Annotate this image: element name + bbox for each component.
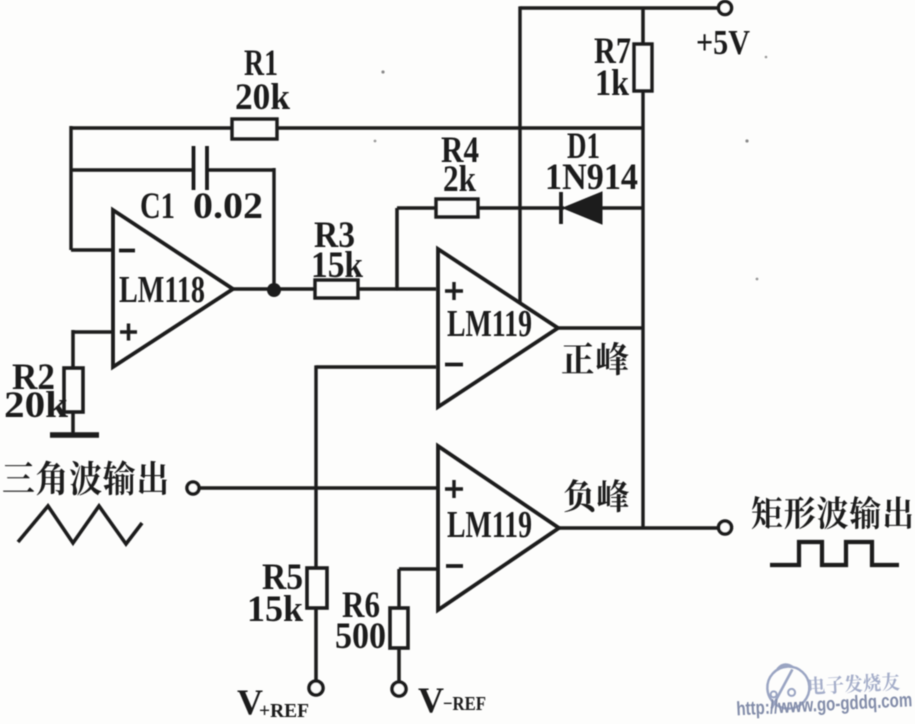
wire U1 output [233, 287, 315, 291]
wire R5 vertical [314, 365, 317, 568]
label R4 [441, 130, 479, 171]
svg-text:LM119: LM119 [447, 303, 532, 345]
op-amp U1 LM118 [113, 210, 233, 367]
wire triangle output row [199, 486, 438, 490]
resistor R1 [232, 119, 277, 139]
svg-text:1N914: 1N914 [545, 157, 638, 198]
label R6 [342, 585, 380, 626]
square wave symbol [770, 542, 899, 565]
U3 plus sign [445, 480, 463, 498]
label R2 value 20k [4, 385, 68, 426]
label D1 [567, 126, 600, 167]
label LM118 [119, 269, 205, 311]
capacitor C1 [71, 146, 274, 190]
wire C1 to output node [272, 168, 275, 290]
svg-text:15k: 15k [311, 245, 363, 286]
wire output bus right rail [641, 91, 644, 528]
wire U3 inverting input [399, 567, 438, 571]
svg-text:+REF: +REF [259, 700, 309, 719]
label R7 value 1k [595, 63, 629, 104]
label R5 [262, 557, 303, 598]
label LM119 lower [447, 504, 532, 546]
label LM119 upper [447, 303, 532, 345]
wire R3 to U2 noninverting input [358, 287, 436, 291]
wire R6 bottom [397, 648, 401, 683]
svg-text:15k: 15k [247, 589, 303, 630]
triangle wave symbol [18, 506, 142, 544]
wire R2 bottom [71, 412, 75, 434]
wire U1 inverting input [71, 248, 113, 252]
label R3 [314, 215, 355, 256]
label R1 [244, 43, 278, 84]
watermark logo and site [734, 658, 913, 720]
wire U1 noninverting input [73, 330, 113, 334]
resistor R4 [436, 199, 478, 217]
U1 minus sign [119, 249, 135, 253]
paper specks [374, 56, 768, 281]
wire left feedback vertical [69, 126, 72, 250]
U1 plus sign [120, 324, 137, 341]
label D1 value 1N914 [545, 157, 638, 198]
wire R4 branch vertical [395, 208, 399, 291]
label R1 value 20k [235, 77, 290, 118]
terminal V-REF [392, 682, 406, 696]
wire R4 to D1 [478, 206, 564, 210]
label R3 value 15k [311, 245, 363, 286]
label R4 value 2k [443, 159, 476, 200]
wire strobe from +5V rail down to U2 [518, 6, 521, 303]
wire D1 to output bus [602, 206, 643, 210]
label R2 [12, 357, 55, 398]
svg-text:+5V: +5V [696, 23, 750, 62]
label negative peak [564, 479, 628, 512]
wire R2 top [71, 330, 75, 368]
label square wave output [752, 496, 912, 529]
terminal square wave output [719, 521, 732, 534]
svg-text:0.02: 0.02 [193, 186, 263, 227]
terminal V+REF [309, 681, 323, 695]
label C1 [140, 186, 175, 227]
svg-text:1k: 1k [595, 63, 629, 104]
wire top +5V rail [520, 6, 719, 9]
resistor R7 [634, 44, 652, 91]
svg-text:V: V [418, 680, 444, 719]
wire U2 output [557, 326, 643, 330]
label positive peak [562, 342, 628, 375]
resistor R2 [64, 368, 83, 412]
U3 minus sign [446, 564, 463, 568]
wire feedback R1 row [71, 126, 232, 130]
terminal +5V [719, 2, 732, 15]
ground [50, 432, 99, 438]
svg-text:−REF: −REF [443, 693, 486, 715]
U2 minus sign [445, 363, 463, 367]
terminal triangle output [187, 482, 199, 494]
wire R7 top [641, 8, 645, 44]
svg-text:500: 500 [335, 616, 386, 657]
label V-REF [418, 680, 486, 720]
resistor R3 [315, 280, 358, 298]
label R7 [594, 31, 631, 72]
wire U3 output to square terminal [558, 526, 719, 530]
wire R1 to output bus [277, 126, 643, 130]
resistor R6 [390, 608, 408, 648]
svg-text:20k: 20k [4, 385, 68, 426]
U2 plus sign [445, 282, 463, 300]
wire U2 inverting input [316, 365, 436, 369]
label triangle wave output [3, 460, 167, 495]
svg-text:2k: 2k [443, 159, 476, 200]
label C1 value 0.02 [193, 186, 263, 227]
svg-text:LM118: LM118 [119, 269, 205, 311]
label V+REF [237, 682, 309, 722]
comparator U3 LM119 lower [438, 446, 559, 610]
svg-text:LM119: LM119 [447, 504, 532, 546]
node U1 output junction [267, 283, 281, 297]
svg-text:C1: C1 [140, 186, 175, 227]
comparator U2 LM119 upper [438, 249, 558, 407]
label R6 value 500 [335, 616, 386, 657]
wire R6 top [397, 569, 400, 608]
resistor R5 [307, 568, 327, 608]
svg-text:20k: 20k [235, 77, 290, 118]
wire R4 left [397, 206, 436, 210]
svg-text:http://www.go-gddq.com: http://www.go-gddq.com [736, 689, 913, 719]
diode D1 [561, 192, 602, 224]
wire R5 bottom [314, 608, 318, 682]
label +5V [696, 23, 750, 62]
label R5 value 15k [247, 589, 303, 630]
